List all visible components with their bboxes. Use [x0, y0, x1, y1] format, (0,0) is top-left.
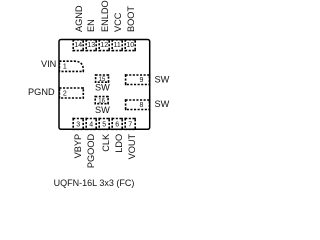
svg-text:BOOT: BOOT: [126, 6, 136, 32]
pin 4 pad: [86, 119, 96, 130]
svg-text:EN: EN: [86, 19, 96, 32]
pin 15 pad (center): [96, 75, 109, 82]
svg-text:LDO: LDO: [114, 134, 124, 153]
svg-text:16: 16: [98, 98, 105, 104]
svg-text:CLK: CLK: [101, 133, 111, 152]
svg-text:1: 1: [63, 64, 67, 71]
svg-text:13: 13: [87, 42, 95, 49]
pin 12 pad: [99, 40, 109, 51]
svg-text:VIN: VIN: [41, 59, 56, 69]
pin 8 pad: [126, 100, 150, 110]
svg-text:9: 9: [140, 77, 144, 84]
svg-text:SW: SW: [155, 99, 170, 109]
svg-text:2: 2: [63, 90, 67, 97]
svg-text:11: 11: [114, 42, 121, 49]
svg-text:SW: SW: [95, 105, 110, 115]
svg-text:VBYP: VBYP: [73, 134, 83, 159]
svg-text:PGND: PGND: [28, 87, 55, 97]
pin 10 pad: [125, 40, 135, 51]
svg-text:SW: SW: [95, 83, 110, 93]
pin 2 pad: [59, 88, 83, 98]
svg-text:3: 3: [76, 122, 80, 129]
package body U1 UQFN-16L outline: [59, 40, 150, 130]
svg-text:12: 12: [100, 42, 108, 49]
svg-text:PGOOD: PGOOD: [86, 134, 96, 169]
pin 14 pad: [73, 40, 83, 51]
svg-text:6: 6: [115, 122, 119, 129]
pad corner ticks: [59, 39, 151, 130]
pin 6 pad: [112, 119, 122, 130]
pin 7 pad: [125, 119, 135, 130]
pin 13 pad: [86, 40, 96, 51]
svg-text:ENLDO: ENLDO: [100, 0, 110, 32]
svg-text:8: 8: [140, 102, 144, 109]
svg-text:VOUT: VOUT: [127, 134, 137, 160]
pin 11 pad: [112, 40, 122, 51]
pin 3 pad: [73, 119, 83, 130]
pin 9 pad: [126, 75, 150, 85]
svg-text:14: 14: [74, 42, 82, 49]
pin 1 pad (chamfered): [59, 61, 83, 71]
svg-text:5: 5: [102, 122, 106, 129]
svg-text:7: 7: [128, 122, 132, 129]
svg-text:4: 4: [89, 122, 93, 129]
svg-text:SW: SW: [155, 75, 170, 85]
svg-text:VCC: VCC: [113, 12, 123, 32]
pin 5 pad: [99, 119, 109, 130]
svg-text:AGND: AGND: [74, 5, 84, 32]
pin 16 pad (center): [95, 97, 108, 104]
svg-text:UQFN-16L 3x3 (FC): UQFN-16L 3x3 (FC): [54, 178, 135, 188]
svg-text:10: 10: [126, 42, 134, 49]
